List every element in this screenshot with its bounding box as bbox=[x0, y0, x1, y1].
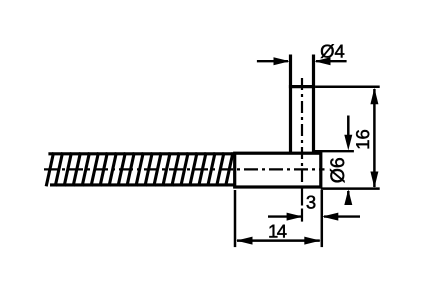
svg-text:14: 14 bbox=[268, 220, 287, 241]
svg-text:3: 3 bbox=[306, 192, 316, 213]
svg-text:16: 16 bbox=[352, 129, 373, 150]
svg-text:Ø6: Ø6 bbox=[327, 157, 349, 183]
svg-text:Ø4: Ø4 bbox=[320, 40, 345, 61]
